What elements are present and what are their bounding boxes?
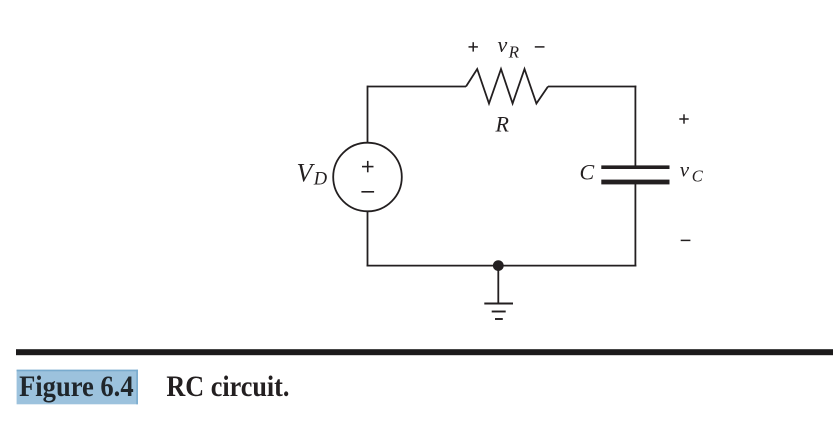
wire: left vertical upper segment xyxy=(367,86,369,143)
voltage source plus sign xyxy=(362,161,374,172)
resistor R (zigzag) xyxy=(466,69,548,104)
caption highlight box xyxy=(17,370,138,405)
wire: top-right horizontal segment xyxy=(548,86,636,88)
wire: right vertical lower segment xyxy=(634,184,636,267)
wire: top-left horizontal segment xyxy=(368,86,467,88)
svg-text:R: R xyxy=(508,43,520,62)
label: plus sign of vR xyxy=(469,42,478,51)
ground xyxy=(484,266,513,319)
caption highlight box top edge xyxy=(17,370,138,372)
svg-text:C: C xyxy=(692,166,704,185)
voltage source VD (circle) xyxy=(333,143,402,212)
capacitor C top plate xyxy=(601,165,669,169)
svg-text:C: C xyxy=(580,159,595,184)
svg-text:v: v xyxy=(498,32,508,57)
svg-text:v: v xyxy=(680,158,690,182)
label: minus sign of vR xyxy=(535,46,545,48)
wire: right vertical upper segment xyxy=(634,86,636,166)
node: bottom junction dot xyxy=(493,260,504,271)
wire: bottom horizontal segment xyxy=(367,265,637,267)
svg-text:R: R xyxy=(495,112,510,137)
label: plus sign of vC xyxy=(679,114,688,123)
svg-text:Figure 6.4: Figure 6.4 xyxy=(19,371,134,403)
label: minus sign of vC xyxy=(681,239,691,241)
voltage source minus sign xyxy=(361,191,374,193)
horizontal rule above caption xyxy=(16,349,833,355)
svg-text:RC circuit.: RC circuit. xyxy=(166,371,289,403)
caption highlight box right edge xyxy=(136,370,138,405)
svg-text:D: D xyxy=(313,170,328,190)
capacitor C bottom plate xyxy=(601,180,669,185)
svg-text:V: V xyxy=(297,159,316,188)
wire: left vertical lower segment xyxy=(367,211,369,266)
